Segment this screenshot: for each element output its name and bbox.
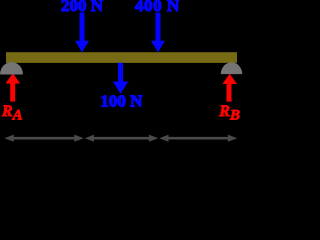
reaction arrow RA (up, under left support): [6, 73, 21, 101]
svg-text:100 N: 100 N: [100, 92, 143, 111]
svg-text:200 N: 200 N: [61, 0, 104, 15]
svg-text:400 N: 400 N: [135, 0, 180, 15]
dimension line segment 3 (400 N point to B): [159, 135, 237, 142]
reaction arrow RB (up, under right support): [222, 74, 237, 102]
force arrow 400 N (down, onto beam top): [151, 13, 165, 53]
force arrow 200 N (down, onto beam top): [75, 13, 89, 53]
dimension line segment 1 (A to 200 N point): [4, 135, 84, 142]
dimension line segment 2 (200 N to 400 N point): [85, 135, 159, 142]
beam: [6, 52, 237, 63]
support A (left pin semicircle): [0, 62, 23, 75]
support B (right pin semicircle): [221, 62, 243, 74]
force arrow 100 N (down, below beam centre): [113, 63, 128, 94]
